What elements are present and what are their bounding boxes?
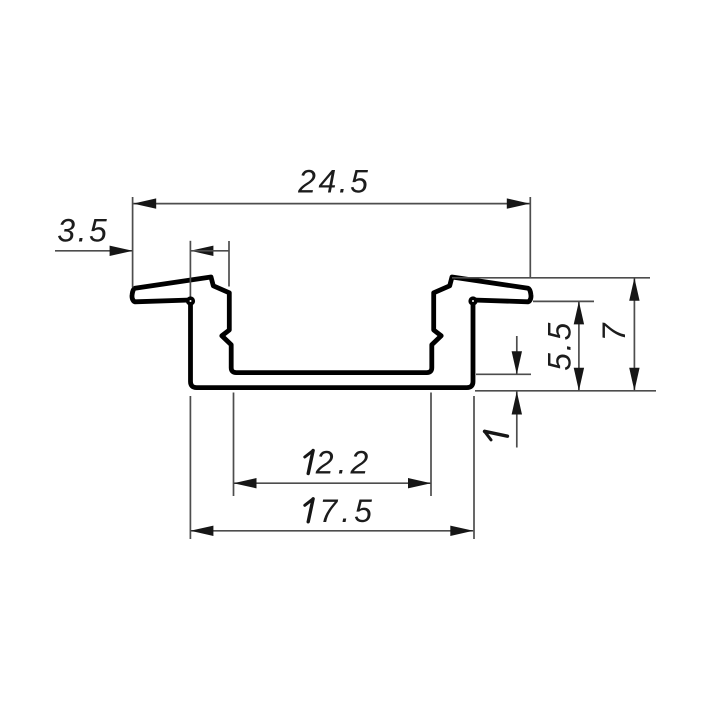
svg-text:3.5: 3.5 [57, 213, 109, 249]
dimension 5.5 line [578, 301, 580, 390]
dimension 5.5 label [541, 321, 577, 371]
dimension 17.5 extension line right [473, 396, 475, 539]
dimension 24.5 arrow right [507, 198, 530, 208]
svg-text:5.5: 5.5 [541, 321, 577, 371]
dimension 24.5 arrow left [133, 198, 156, 208]
right wing knob [470, 298, 476, 304]
dimension 24.5 line [133, 203, 530, 205]
svg-text:7.5: 7.5 [319, 493, 375, 529]
dimension 1 label [485, 431, 508, 440]
dimension 12.2 label [305, 445, 372, 481]
dimension 7 arrow bottom [629, 368, 639, 391]
dimension 5.5 arrow bottom [574, 368, 584, 391]
dimension 3.5 extension line inner wall [228, 241, 230, 287]
dimension 12.2 arrow left [234, 478, 257, 488]
dimension 12.2 arrow right [408, 478, 431, 488]
dimension 24.5 extension line right [529, 197, 531, 278]
dimension 1 arrow upper [512, 351, 522, 374]
dimension 1 extension line top [476, 373, 531, 375]
dimension 17.5 line [190, 530, 473, 532]
dimension 7 label [596, 322, 632, 341]
svg-text:24.5: 24.5 [297, 163, 370, 199]
dimension 12.2 extension line left [233, 393, 235, 497]
dimension 3.5 extension line outer wall [189, 241, 191, 299]
dimension 17.5 arrow right [450, 526, 473, 536]
dimension 24.5 extension line left [132, 197, 134, 288]
dimension 12.2 line [234, 482, 432, 484]
dimension 12.2 extension line right [430, 393, 432, 497]
dimension 24.5 label [297, 163, 370, 199]
dimension 7 arrow top [629, 278, 639, 301]
dimension 3.5 arrow left [110, 246, 133, 256]
left wing knob [188, 298, 194, 304]
dimension 17.5 arrow left [190, 526, 213, 536]
svg-text:2.2: 2.2 [315, 445, 372, 481]
dimension 3.5 leader right [190, 250, 229, 252]
dimension 1 line lower [516, 391, 518, 448]
dimension 17.5 extension line left [189, 396, 191, 539]
dimension 7 extension line top [452, 277, 650, 279]
dimension 1 line upper [516, 336, 518, 374]
profile outline [132, 277, 531, 388]
dimension 7 line [633, 278, 635, 391]
dimension 5.5 arrow top [574, 301, 584, 324]
dimension 3.5 leader left [55, 250, 133, 252]
dimension 5.5 extension line top [533, 300, 594, 302]
dimension 1 arrow lower [512, 392, 522, 415]
dimension 3.5 label [57, 213, 109, 249]
shared bottom extension line [475, 390, 656, 392]
svg-text:7: 7 [596, 322, 632, 341]
dimension 3.5 arrow right [190, 246, 213, 256]
dimension 17.5 label [305, 493, 376, 529]
